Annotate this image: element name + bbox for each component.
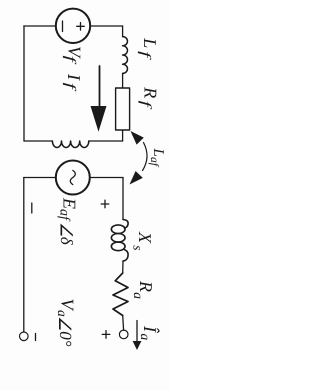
svg-text:0°: 0°	[56, 331, 75, 347]
wire: armature top wire (E_af to X_s)	[122, 178, 124, 220]
label V_f	[62, 46, 85, 65]
wire: field loop bottom wire	[23, 26, 25, 141]
label R_a	[131, 280, 156, 299]
wire: field loop right wire top segment	[89, 140, 123, 142]
plus terminal (open circle)	[119, 330, 128, 339]
svg-text:af: af	[148, 157, 160, 168]
svg-text:a: a	[131, 292, 146, 299]
label I_a (hat)	[138, 325, 160, 341]
wire: field loop left wire bottom segment	[24, 25, 56, 27]
wire: between L_f and R_f	[122, 73, 124, 88]
svg-text:L: L	[150, 148, 166, 157]
svg-text:L: L	[140, 37, 160, 48]
svg-text:I: I	[64, 73, 84, 81]
svg-text:∠: ∠	[57, 222, 76, 237]
resistor R_a (zigzag)	[113, 273, 128, 316]
wire: armature left wire top segment	[90, 177, 123, 179]
svg-text:∠: ∠	[55, 316, 74, 331]
minus terminal (open circle)	[20, 332, 29, 341]
label L_f	[137, 37, 160, 60]
label R_f	[137, 86, 160, 110]
label V_a angle 0 deg	[55, 299, 78, 347]
current arrow I_a	[136, 321, 138, 343]
label I_f	[62, 73, 84, 92]
wire: field loop right wire bottom segment	[24, 140, 52, 142]
current arrow I_f	[99, 66, 101, 108]
label L_af	[148, 148, 166, 168]
wire: R_f to top-right corner	[122, 130, 124, 141]
inductor X_s (looped coil)	[123, 220, 128, 229]
svg-text:E: E	[60, 197, 80, 209]
minus label near E_af	[31, 203, 33, 213]
minus sign inside V_f	[62, 21, 64, 32]
svg-text:f: f	[62, 83, 78, 92]
sine symbol inside E_af	[70, 170, 75, 184]
svg-text:f: f	[137, 51, 153, 60]
plus label at terminal	[102, 331, 110, 339]
svg-text:R: R	[140, 86, 160, 98]
svg-text:s: s	[130, 245, 145, 250]
svg-text:f: f	[137, 101, 153, 110]
svg-text:a: a	[138, 334, 153, 341]
plus sign inside V_f	[77, 23, 85, 31]
svg-text:R: R	[136, 280, 156, 292]
voltage source V_f (circle)	[56, 9, 90, 43]
wire: X_s to R_a	[122, 261, 124, 273]
source E_af (circle)	[56, 161, 90, 195]
field winding coil (on right wire)	[52, 141, 88, 148]
svg-text:f: f	[62, 56, 78, 65]
svg-text:X: X	[135, 231, 155, 244]
resistor R_f (box)	[116, 88, 130, 130]
svg-text:af: af	[57, 209, 72, 222]
wire: field loop left wire top segment	[91, 25, 123, 27]
label E_af angle delta	[57, 197, 80, 246]
wire: armature bottom wire	[23, 178, 25, 333]
inductor L_f	[123, 37, 128, 74]
wire: armature left wire bottom segment	[24, 177, 56, 179]
svg-text:δ: δ	[57, 237, 76, 246]
wire: R_a to plus terminal	[122, 316, 125, 331]
label X_s	[130, 231, 155, 251]
wire: field loop top wire (left of L_f)	[122, 26, 124, 37]
plus label near E_af	[101, 200, 109, 208]
minus label at terminal	[35, 334, 37, 341]
mutual inductance arrow L_af (double-headed arc)	[143, 143, 148, 171]
